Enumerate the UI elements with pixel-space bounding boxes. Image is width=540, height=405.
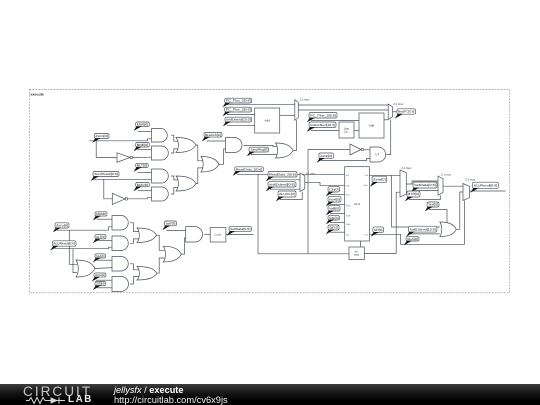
svg-text:BTR[0]: BTR[0]	[408, 192, 419, 196]
svg-text:Zero: Zero	[364, 184, 369, 187]
svg-text:inB: inB	[346, 184, 350, 187]
svg-text:MW6[0]: MW6[0]	[137, 122, 149, 126]
svg-text:Test[0]: Test[0]	[428, 203, 438, 207]
svg-text:inA: inA	[346, 174, 350, 177]
svg-text:Zero[0]: Zero[0]	[56, 224, 68, 228]
svg-text:InstrucNext[10:0]: InstrucNext[10:0]	[310, 123, 335, 127]
svg-text:Cin[0]: Cin[0]	[329, 187, 338, 191]
svg-text:ALUResult[0:6]: ALUResult[0:6]	[54, 242, 75, 246]
svg-text:ReadData_1[0:6]: ReadData_1[0:6]	[236, 167, 263, 171]
svg-text:Op[1:0]: Op[1:0]	[329, 226, 338, 230]
svg-text:CO: CO	[365, 233, 369, 236]
svg-text:ALUResult[0:6]: ALUResult[0:6]	[474, 183, 498, 187]
svg-text:Add: Add	[265, 119, 271, 123]
svg-text:PC_Plus_2[0:6]: PC_Plus_2[0:6]	[226, 108, 251, 112]
svg-text:InstExtend[0:6]: InstExtend[0:6]	[269, 183, 295, 187]
svg-text:PC_Plus_2[0:6]: PC_Plus_2[0:6]	[226, 99, 251, 103]
svg-text:InvA[0]: InvA[0]	[329, 197, 340, 201]
svg-text:Sign: Sign	[346, 223, 351, 226]
svg-text:MW0[0]: MW0[0]	[96, 212, 106, 216]
svg-text:Ext.: Ext.	[344, 131, 349, 134]
svg-text:Out: Out	[364, 174, 368, 177]
svg-text:OR0[0]: OR0[0]	[96, 282, 104, 286]
svg-text:InstExtend[10:0]: InstExtend[10:0]	[226, 118, 251, 122]
svg-text:Zero[0]: Zero[0]	[96, 134, 109, 138]
svg-text:SLA[0]: SLA[0]	[96, 254, 104, 258]
svg-text:SFf[0]: SFf[0]	[374, 228, 383, 232]
svg-text:execute: execute	[31, 93, 44, 97]
svg-text:2:1 mux: 2:1 mux	[300, 98, 311, 102]
svg-text:SLA[0]: SLA[0]	[407, 237, 418, 241]
svg-text:Zero[0]: Zero[0]	[373, 177, 386, 181]
svg-text:Branch[0]: Branch[0]	[205, 133, 221, 137]
svg-text:PC_Plus_2[0:6]: PC_Plus_2[0:6]	[310, 113, 336, 117]
svg-text:ALU: ALU	[354, 202, 360, 206]
svg-text:2:1 mux: 2:1 mux	[401, 166, 412, 170]
svg-text:ALUResult[0:6]: ALUResult[0:6]	[94, 172, 118, 176]
svg-text:Cond.: Cond.	[215, 234, 222, 237]
svg-text:2:1 mux: 2:1 mux	[441, 172, 452, 176]
svg-text:NextPC[0:6]: NextPC[0:6]	[398, 110, 414, 114]
svg-text:Add: Add	[369, 124, 375, 128]
svg-text:2:1 mux: 2:1 mux	[306, 171, 317, 175]
svg-text:BNE[0]: BNE[0]	[137, 143, 149, 147]
svg-text:BGE2[0]: BGE2[0]	[137, 183, 149, 187]
svg-text:InvB[0]: InvB[0]	[329, 206, 339, 210]
svg-text:BLT[0]: BLT[0]	[137, 164, 147, 168]
svg-text:SetF[0]: SetF[0]	[166, 222, 176, 226]
svg-text:ALUSrc[0]: ALUSrc[0]	[279, 192, 295, 196]
svg-text:2:1 mux: 2:1 mux	[465, 177, 476, 181]
svg-text:ReadData_2[0:6]: ReadData_2[0:6]	[269, 172, 296, 176]
svg-text:2:1 mux: 2:1 mux	[393, 102, 404, 106]
svg-text:Sign[0]: Sign[0]	[329, 216, 338, 220]
svg-text:InstExtend[10:0]: InstExtend[10:0]	[410, 227, 436, 231]
svg-text:JumpReg[0]: JumpReg[0]	[250, 148, 267, 152]
svg-text:InvA: InvA	[346, 205, 351, 208]
svg-text:state: state	[354, 254, 360, 257]
svg-text:XCG[0]: XCG[0]	[95, 273, 105, 277]
svg-text:LT: LT	[376, 153, 380, 157]
svg-text:SetData[0:6]: SetData[0:6]	[414, 183, 436, 187]
svg-text:SetData[0:6]: SetData[0:6]	[230, 227, 250, 231]
svg-text:ALT[0]: ALT[0]	[96, 235, 105, 239]
svg-text:InvB: InvB	[346, 214, 351, 217]
svg-text:Jump[0]: Jump[0]	[320, 154, 332, 158]
